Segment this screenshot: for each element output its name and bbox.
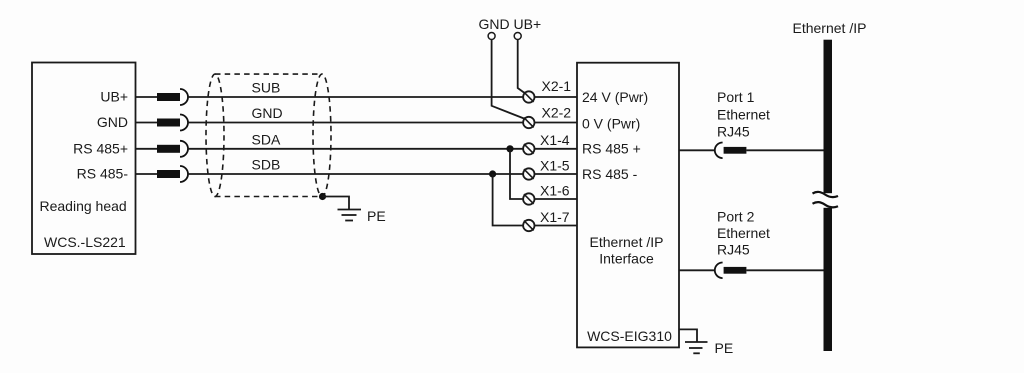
- wire port1 to bus: [746, 149, 823, 151]
- connector plug RS485-: [157, 166, 188, 182]
- wire UB+ stub: [136, 96, 158, 98]
- wire GND to X2-2: [188, 122, 524, 124]
- wire SDB to X1-5: [188, 173, 524, 175]
- svg-text:Reading head: Reading head: [40, 198, 127, 214]
- svg-text:Ethernet: Ethernet: [717, 225, 770, 241]
- wire RS485- stub: [136, 173, 158, 175]
- label PE (interface): [715, 340, 734, 356]
- wire SDA to X1-4: [188, 148, 524, 150]
- svg-text:X2-1: X2-1: [542, 78, 572, 94]
- connector plug RS485+: [157, 141, 188, 157]
- svg-text:Port 2: Port 2: [717, 208, 755, 224]
- wire RS485+ stub: [136, 148, 158, 150]
- ground PE (interface): [685, 342, 708, 353]
- svg-text:RS 485 +: RS 485 +: [582, 141, 641, 157]
- terminal circle UB+ (top): [514, 33, 521, 40]
- svg-text:WCS-EIG310: WCS-EIG310: [587, 328, 672, 344]
- pin label X2-1: [542, 78, 572, 94]
- interface box WCS-EIG310: [577, 63, 679, 348]
- wire port2 to bus: [746, 269, 823, 271]
- reading head box WCS.-LS221: [32, 63, 136, 255]
- wire SUB to X2-1: [188, 96, 524, 98]
- terminal circle GND (top): [488, 33, 495, 40]
- ground PE (shield): [338, 210, 362, 221]
- label Port 1 Ethernet RJ45: [717, 89, 770, 140]
- svg-text:X1-5: X1-5: [540, 158, 570, 174]
- pin label X1-7: [540, 209, 570, 225]
- connector RJ45 port1: [715, 143, 747, 159]
- wire label GND: [252, 105, 283, 121]
- svg-text:RJ45: RJ45: [717, 242, 750, 258]
- svg-text:PE: PE: [367, 208, 386, 224]
- pin label X1-5: [540, 158, 570, 174]
- wire GND stub: [136, 122, 158, 124]
- terminal X1-4: [523, 143, 577, 154]
- svg-text:0 V (Pwr): 0 V (Pwr): [582, 115, 640, 131]
- shield junction node: [319, 193, 326, 200]
- svg-text:X1-7: X1-7: [540, 209, 570, 225]
- svg-text:RS 485 -: RS 485 -: [582, 166, 638, 182]
- wire port2 to connector: [679, 269, 715, 271]
- label Ethernet /IP (bus): [793, 20, 867, 36]
- svg-text:RJ45: RJ45: [717, 124, 750, 140]
- svg-text:X1-6: X1-6: [540, 183, 570, 199]
- connector plug UB+: [157, 89, 188, 105]
- cable shield dashed cylinder: [206, 74, 331, 196]
- svg-text:UB+: UB+: [100, 89, 128, 105]
- terminal X1-6: [523, 193, 577, 204]
- terminal X2-2: [523, 117, 577, 128]
- svg-text:X2-2: X2-2: [542, 105, 572, 121]
- pin label X1-6: [540, 183, 570, 199]
- wire UB+ down to X2-1: [518, 40, 526, 94]
- svg-text:GND UB+: GND UB+: [479, 16, 542, 32]
- Ethernet /IP bus bar: [811, 40, 841, 351]
- svg-text:Port 1: Port 1: [717, 89, 755, 105]
- svg-text:24 V (Pwr): 24 V (Pwr): [582, 89, 648, 105]
- wire label SDB: [252, 157, 281, 173]
- svg-text:Interface: Interface: [599, 251, 654, 267]
- terminal X1-5: [523, 168, 577, 179]
- connector RJ45 port2: [715, 263, 747, 279]
- wire SDA branch to X1-6: [510, 149, 523, 199]
- svg-text:RS 485-: RS 485-: [77, 166, 129, 182]
- svg-text:PE: PE: [715, 340, 734, 356]
- wire SDB branch to X1-7: [493, 174, 523, 226]
- wire shield to PE ground: [323, 197, 350, 210]
- label PE (shield): [367, 208, 386, 224]
- svg-text:Ethernet /IP: Ethernet /IP: [590, 234, 664, 250]
- svg-text:SUB: SUB: [252, 80, 281, 96]
- svg-text:RS 485+: RS 485+: [73, 140, 128, 156]
- junction node on SDA: [506, 145, 513, 152]
- label Port 2 Ethernet RJ45: [717, 208, 770, 257]
- wire box to PE ground (bottom): [679, 329, 697, 342]
- svg-text:GND: GND: [252, 105, 283, 121]
- wire port1 to connector: [679, 149, 715, 151]
- wire GND down to X2-2: [492, 40, 526, 120]
- pin label X1-4: [540, 132, 570, 148]
- svg-text:X1-4: X1-4: [540, 132, 570, 148]
- label GND UB+ (top): [479, 16, 542, 32]
- svg-text:SDA: SDA: [252, 131, 281, 147]
- svg-text:Ethernet /IP: Ethernet /IP: [793, 20, 867, 36]
- terminal X1-7: [523, 220, 577, 231]
- svg-text:GND: GND: [97, 114, 128, 130]
- wire label SUB: [252, 80, 281, 96]
- pin label X2-2: [542, 105, 572, 121]
- svg-text:SDB: SDB: [252, 157, 281, 173]
- svg-text:Ethernet: Ethernet: [717, 106, 770, 122]
- wire label SDA: [252, 131, 281, 147]
- junction node on SDB: [489, 170, 496, 177]
- connector plug GND: [157, 115, 188, 131]
- svg-text:WCS.-LS221: WCS.-LS221: [44, 234, 126, 250]
- terminal X2-1: [523, 91, 577, 102]
